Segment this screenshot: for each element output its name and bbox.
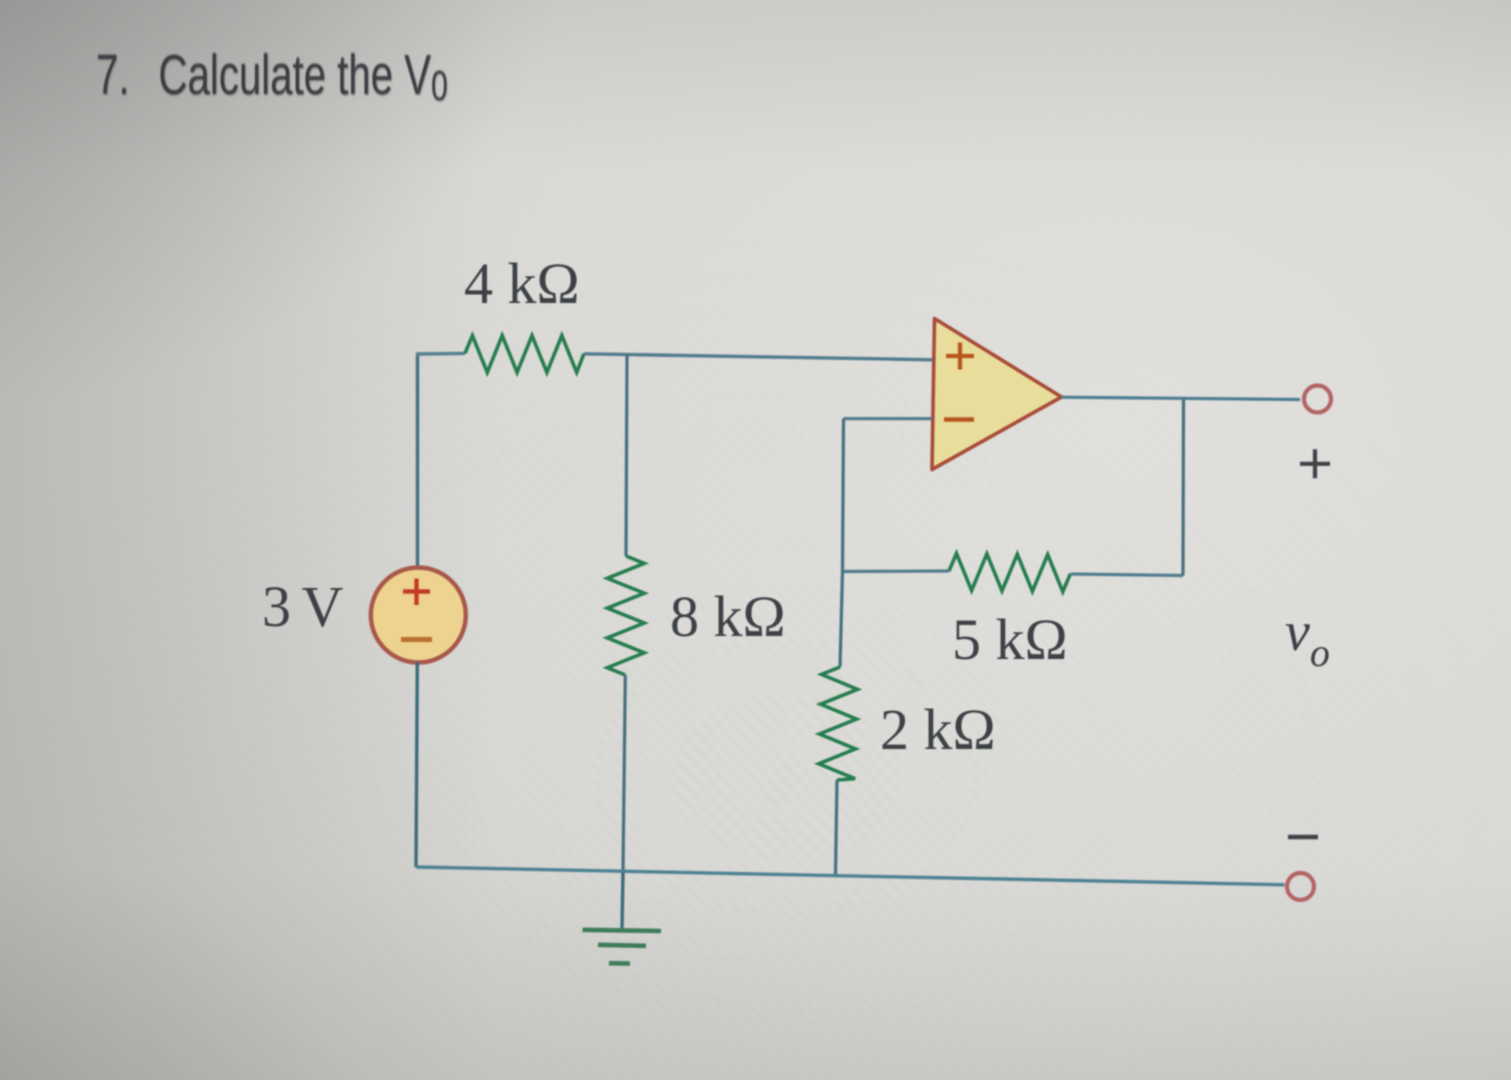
wire: top horizontal from 4k to op-amp + input bbox=[584, 354, 933, 360]
resistor 5 kOhm (horizontal zigzag) bbox=[949, 553, 1070, 591]
ground bar 1 bbox=[583, 930, 662, 931]
wire: feedback right vertical up to output bbox=[1181, 399, 1185, 576]
title: problem statement bbox=[96, 42, 448, 108]
wire: 2k bottom lead to bottom rail bbox=[836, 780, 838, 874]
wire: feedback left vertical bbox=[843, 419, 844, 572]
wire: op-amp output bbox=[1062, 397, 1301, 399]
wire: left vertical from top-left corner down to source top bbox=[416, 354, 419, 567]
terminal: output - (circle) bbox=[1287, 873, 1314, 900]
svg-text:vo: vo bbox=[1285, 601, 1330, 675]
ground bar 2 bbox=[598, 945, 646, 946]
source + mark bbox=[403, 579, 430, 606]
ground stem bbox=[622, 872, 623, 929]
terminal: output + (circle) bbox=[1304, 386, 1331, 413]
output + sign bbox=[1300, 449, 1330, 478]
wire: 8k branch from top wire junction down bbox=[626, 355, 627, 557]
wire: source bottom to bottom-left corner bbox=[416, 662, 417, 867]
resistor 4 kOhm (horizontal zigzag) bbox=[465, 336, 584, 373]
ground bar 3 bbox=[609, 961, 630, 966]
wire: 5k left lead bbox=[843, 569, 950, 573]
wire: 8k branch bottom down to bottom rail bbox=[623, 675, 625, 872]
svg-text:4 kΩ: 4 kΩ bbox=[464, 251, 580, 316]
wire: top-left horizontal to 4k resistor bbox=[416, 352, 465, 356]
voltage source 3 V (circle) bbox=[371, 568, 466, 663]
wire: 2k branch from feedback junction down bbox=[840, 572, 843, 668]
output - sign bbox=[1288, 835, 1318, 839]
wire: 5k right lead bbox=[1070, 574, 1183, 576]
op-amp + input marker bbox=[946, 343, 974, 370]
resistor 8 kOhm (vertical zigzag) bbox=[607, 556, 644, 675]
resistor 2 kOhm (vertical zigzag) bbox=[819, 667, 858, 780]
svg-text:2 kΩ: 2 kΩ bbox=[880, 697, 996, 762]
wire: bottom rail bbox=[416, 867, 1285, 885]
wire: - input horizontal bbox=[844, 417, 933, 420]
svg-text:3 V: 3 V bbox=[262, 574, 343, 639]
op-amp - input marker bbox=[944, 417, 974, 422]
svg-text:5 kΩ: 5 kΩ bbox=[952, 607, 1068, 672]
source - mark bbox=[401, 637, 432, 642]
svg-text:8 kΩ: 8 kΩ bbox=[670, 584, 786, 649]
op-amp U1 (triangle) bbox=[932, 319, 1062, 470]
